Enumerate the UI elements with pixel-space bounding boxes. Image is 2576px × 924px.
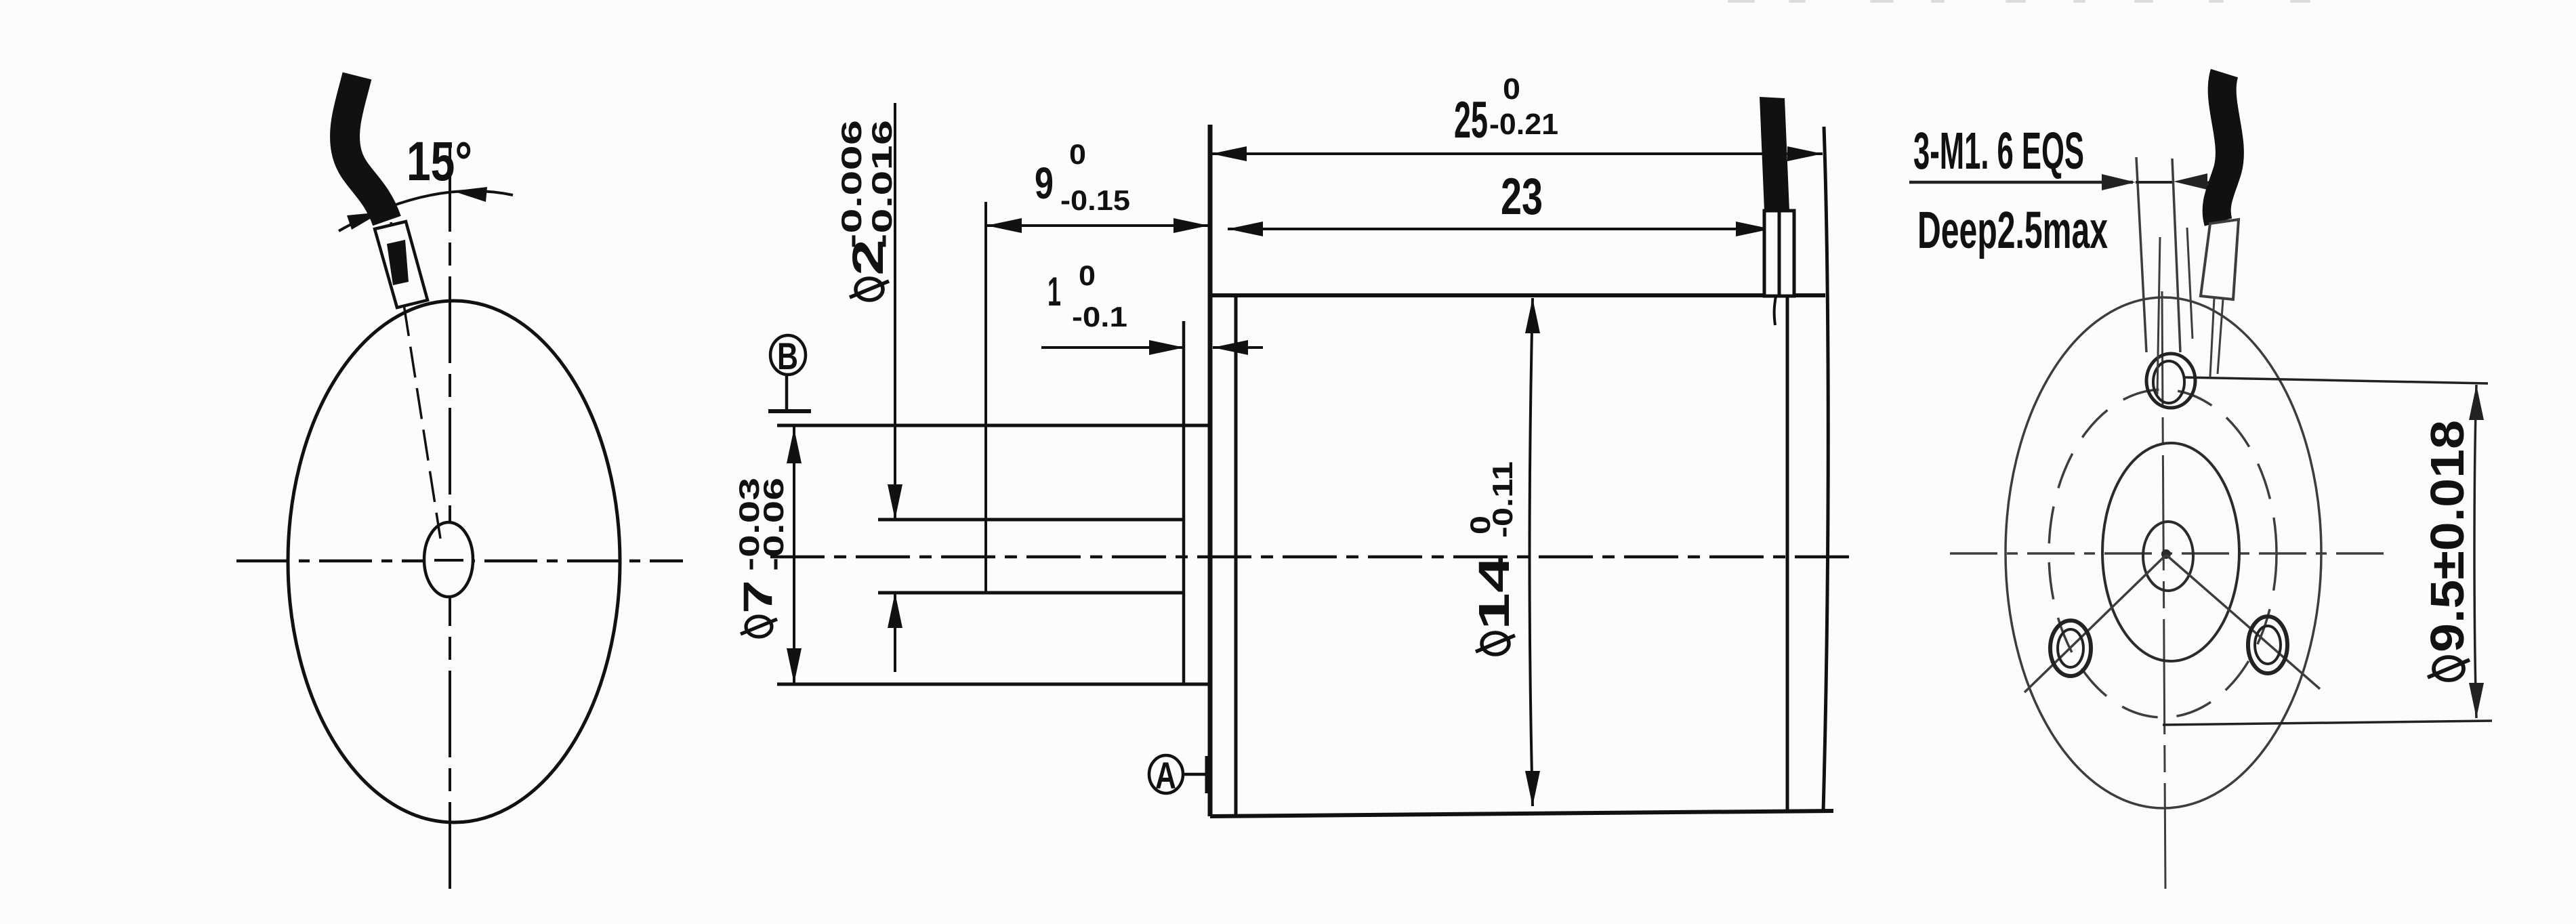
M1.6 leader arrow 1 bbox=[2102, 174, 2136, 190]
dim 1 right arrow (points left) bbox=[1213, 340, 1248, 355]
phi9.5 bottom leader bbox=[2163, 721, 2492, 725]
svg-text:B: B bbox=[777, 335, 798, 377]
dim phi14 top arrow (points up) bbox=[1525, 298, 1540, 333]
svg-text:3-M1. 6 EQS: 3-M1. 6 EQS bbox=[1913, 122, 2084, 180]
svg-text:9: 9 bbox=[1035, 158, 1054, 208]
left view vertical centerline bbox=[449, 145, 451, 894]
bottom-right mounting hole inner bbox=[2255, 626, 2281, 664]
label phi14 0/-0.11 (rotated) bbox=[1464, 461, 1518, 654]
svg-text:-0.21: -0.21 bbox=[1489, 108, 1558, 141]
M1.6 leader overshoot to cable bbox=[2195, 182, 2221, 183]
dimension 1 left leader bbox=[1041, 346, 1183, 349]
svg-text:-0.15: -0.15 bbox=[1060, 184, 1130, 216]
svg-text:9.5±0.018: 9.5±0.018 bbox=[2421, 420, 2474, 652]
thread hole centerline short bbox=[2157, 237, 2160, 394]
top mounting hole inner bbox=[2153, 361, 2184, 403]
dimension 25 line bbox=[1211, 152, 1823, 155]
spoke to bottom-right hole bbox=[2166, 555, 2320, 689]
left view cable end inside sleeve bbox=[387, 240, 409, 285]
angle arc left arrowhead bbox=[347, 212, 381, 230]
svg-text:0: 0 bbox=[1079, 259, 1096, 291]
datum A base tick bbox=[1205, 756, 1210, 793]
dim phi2 vertical line lower bbox=[894, 594, 896, 672]
dim phi2 upper arrow (points down) bbox=[888, 484, 902, 520]
phi9.5 top arrow (points up) bbox=[2469, 385, 2484, 420]
phi9.5 top leader bbox=[2184, 377, 2488, 383]
spoke to bottom-left hole bbox=[2024, 555, 2166, 692]
right view horizontal centerline bbox=[1950, 552, 2385, 555]
svg-text:14: 14 bbox=[1470, 555, 1518, 630]
label phi2 -0.006/-0.016 (rotated) bbox=[835, 120, 898, 300]
shaft top edge / phi2 extension bbox=[878, 518, 1184, 522]
right view sleeve wire line a bbox=[2210, 298, 2214, 377]
datum B base tick bbox=[768, 409, 811, 413]
dim 9 left arrow bbox=[986, 218, 1022, 233]
dim phi14 bottom arrow (points down) bbox=[1525, 771, 1540, 806]
left view shaft ellipse bbox=[424, 522, 473, 597]
dim 9 right arrow bbox=[1173, 218, 1209, 233]
middle view cable grommet box bbox=[1764, 211, 1794, 296]
svg-text:0: 0 bbox=[1069, 138, 1086, 170]
datum A stem bbox=[1184, 773, 1206, 776]
svg-text:-0.016: -0.016 bbox=[866, 120, 898, 249]
motor body top edge bbox=[1210, 293, 1825, 297]
grommet inner line bbox=[1778, 211, 1781, 296]
middle view cable (black) bbox=[1760, 97, 1789, 211]
dim 1 left arrow (points right) bbox=[1149, 340, 1184, 355]
dim 23 right arrow bbox=[1736, 222, 1771, 236]
left view cable sleeve bbox=[375, 222, 428, 308]
right view boss ellipse bbox=[2102, 443, 2239, 661]
phi9.5 bottom arrow (points down) bbox=[2469, 683, 2484, 718]
right view bolt circle (dashed) bbox=[2049, 390, 2277, 717]
motor body mounting face (left edge) bbox=[1208, 125, 1213, 816]
angle arc right arrowhead bbox=[453, 187, 487, 202]
left view horizontal centerline bbox=[236, 560, 683, 563]
right view shaft hole ellipse bbox=[2143, 522, 2193, 591]
right view center dot bbox=[2161, 549, 2171, 559]
bottom-right mounting hole outer bbox=[2248, 616, 2287, 673]
dim 25 right arrow bbox=[1787, 146, 1823, 161]
M1.6 leader mid segment bbox=[2136, 181, 2172, 184]
M1.6 leader underline bbox=[1909, 181, 2133, 184]
svg-text:A: A bbox=[1155, 754, 1176, 797]
motor body inner left line bbox=[1234, 296, 1238, 815]
left view motor outline ellipse bbox=[288, 301, 620, 822]
M1.6 leader arrow 2 bbox=[2174, 173, 2207, 190]
boss top edge / phi7 extension bbox=[777, 424, 1210, 427]
right view cable (black S-curve) bbox=[2217, 73, 2230, 222]
thread projection line left bbox=[2136, 157, 2146, 352]
datum A circle bbox=[1149, 755, 1183, 793]
dim phi2 vertical line upper bbox=[894, 103, 896, 518]
dim 25 left arrow bbox=[1211, 146, 1247, 161]
motor body inner right line bbox=[1786, 296, 1789, 812]
bottom-left mounting hole outer bbox=[2050, 621, 2091, 676]
right view vertical centerline bbox=[2162, 291, 2165, 889]
shaft bottom edge / phi2 extension bbox=[878, 591, 1184, 595]
svg-text:-0.1: -0.1 bbox=[1072, 301, 1127, 333]
right view sleeve wire line b bbox=[2218, 299, 2223, 374]
svg-text:15°: 15° bbox=[407, 131, 472, 192]
dimension 23 line bbox=[1228, 228, 1771, 230]
svg-text:Deep2.5max: Deep2.5max bbox=[1917, 201, 2108, 259]
left view lead axis dashed line bbox=[391, 222, 440, 539]
dim phi7 bottom arrow (points down) bbox=[787, 648, 802, 684]
svg-text:25: 25 bbox=[1454, 91, 1488, 149]
left view center tick bbox=[434, 559, 463, 562]
datum B stem bbox=[785, 375, 789, 410]
thread projection aux line bbox=[2187, 228, 2193, 339]
svg-text:-0.11: -0.11 bbox=[1487, 461, 1518, 538]
dimension 1 right leader bbox=[1213, 346, 1263, 349]
svg-text:1: 1 bbox=[1047, 269, 1061, 314]
dim 23 left arrow bbox=[1228, 222, 1263, 236]
dim phi7 vertical line bbox=[793, 427, 795, 685]
label phi9.5 +-0.018 (rotated) bbox=[2421, 420, 2474, 680]
svg-text:-0.006: -0.006 bbox=[835, 120, 867, 249]
dim phi7 top arrow (points up) bbox=[787, 428, 802, 463]
svg-text:0: 0 bbox=[1503, 72, 1520, 106]
middle view centerline bbox=[770, 555, 1854, 559]
datum B circle bbox=[770, 335, 806, 375]
top mounting hole outer bbox=[2146, 354, 2195, 408]
svg-text:7: 7 bbox=[735, 580, 781, 614]
dimension 9 line bbox=[986, 224, 1209, 227]
boss front face line bbox=[1182, 321, 1186, 684]
dim phi14 vertical line bbox=[1530, 298, 1533, 806]
right view flange ellipse bbox=[2006, 297, 2321, 808]
motor body right end cap outer line bbox=[1823, 127, 1828, 812]
scan artifact marks top edge bbox=[1728, 0, 2310, 3]
wire stub below grommet bbox=[1774, 296, 1776, 325]
boss bottom edge / phi7 extension bbox=[777, 683, 1210, 686]
motor body bottom edge bbox=[1210, 811, 1833, 816]
left view angle arc 15 deg bbox=[339, 191, 513, 231]
svg-text:-0.06: -0.06 bbox=[757, 478, 789, 571]
thread projection line right bbox=[2172, 159, 2180, 352]
phi9.5 dim line bbox=[2474, 385, 2476, 718]
svg-text:23: 23 bbox=[1501, 168, 1543, 226]
shaft tip edge / 9-dim extension bbox=[984, 202, 987, 593]
bottom-left mounting hole inner bbox=[2058, 629, 2083, 667]
right view cable sleeve bbox=[2201, 219, 2239, 299]
label phi7 -0.03/-0.06 (rotated) bbox=[733, 478, 789, 637]
left view cable (thick black, S-curve) bbox=[345, 76, 387, 221]
dim phi2 lower arrow (points up) bbox=[888, 593, 902, 628]
